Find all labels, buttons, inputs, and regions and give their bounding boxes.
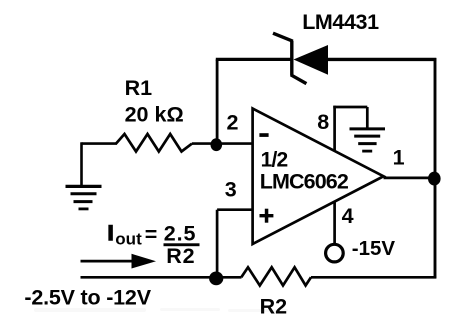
zener anode triangle bbox=[294, 45, 329, 75]
svg-text:out: out bbox=[115, 230, 142, 249]
svg-text:20 kΩ: 20 kΩ bbox=[125, 103, 184, 127]
wire: input left horizontal to R1 bbox=[82, 142, 118, 145]
zener top tail bbox=[273, 33, 293, 41]
node: junction dot at pin 2 bbox=[211, 138, 223, 151]
current arrow head bbox=[132, 254, 157, 269]
resistor R2 bbox=[241, 267, 311, 285]
wire: right vertical rail bbox=[434, 58, 437, 278]
wire: pin 4 vertical bbox=[333, 201, 336, 243]
wire: top horizontal to zener bbox=[216, 58, 292, 61]
svg-text:2: 2 bbox=[227, 110, 239, 134]
current arrow line bbox=[81, 260, 136, 263]
svg-text:-15V: -15V bbox=[352, 237, 396, 260]
inverting input minus sign bbox=[259, 133, 268, 137]
wire: pin 3 stub bbox=[217, 208, 252, 211]
svg-text:=: = bbox=[145, 223, 158, 247]
svg-text:1: 1 bbox=[393, 145, 405, 169]
wire: top horizontal from zener to right rail bbox=[328, 58, 436, 61]
node: bottom junction dot bbox=[209, 272, 223, 286]
svg-text:I: I bbox=[108, 221, 114, 245]
svg-text:-2.5V to -12V: -2.5V to -12V bbox=[24, 285, 151, 309]
wire: R1 to op-amp pin 2 bbox=[192, 142, 253, 145]
op-amp U1 triangle bbox=[253, 109, 384, 245]
wire: bottom horizontal right segment bbox=[311, 276, 436, 279]
wire: bottom horizontal left segment bbox=[81, 276, 242, 279]
resistor R1 bbox=[116, 134, 192, 152]
svg-text:R2: R2 bbox=[166, 244, 195, 268]
faint scan smudge bottom bbox=[34, 308, 288, 312]
svg-text:2.5: 2.5 bbox=[164, 221, 197, 245]
svg-text:LMC6062: LMC6062 bbox=[260, 170, 349, 194]
wire: pin 3 vertical down to bottom node bbox=[216, 210, 219, 278]
svg-text:R1: R1 bbox=[125, 76, 153, 100]
svg-text:R2: R2 bbox=[260, 295, 288, 319]
zener bottom tail bbox=[291, 75, 307, 84]
wire: down to ground 2 bbox=[366, 107, 369, 129]
svg-text:4: 4 bbox=[342, 204, 354, 228]
wire: pin 8 vertical bbox=[333, 106, 336, 152]
wire: left vertical down to ground bbox=[80, 142, 83, 186]
wire: pin 8 top horizontal bbox=[333, 106, 367, 109]
ground (left) bbox=[66, 186, 102, 209]
wire: feedback vertical up from pin-2 node bbox=[216, 59, 219, 144]
non-inverting input plus sign bbox=[260, 209, 274, 223]
svg-text:8: 8 bbox=[317, 110, 329, 134]
ground (pin 8) bbox=[350, 129, 386, 151]
zener diode LM4431 cathode bar bbox=[290, 41, 293, 76]
formula fraction bar bbox=[164, 243, 200, 246]
node: output junction dot bbox=[428, 172, 441, 186]
terminal circle -15V bbox=[326, 244, 344, 262]
wire: output from op-amp tip to rail bbox=[384, 177, 436, 180]
svg-text:1/2: 1/2 bbox=[261, 148, 288, 171]
svg-text:3: 3 bbox=[225, 178, 237, 202]
svg-text:LM4431: LM4431 bbox=[302, 10, 379, 34]
